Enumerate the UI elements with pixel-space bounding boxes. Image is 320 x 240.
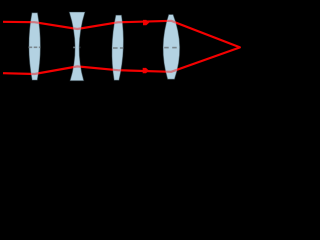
wire: top marginal ray: [3, 21, 240, 48]
lens fill overlays (make rays look pink inside glass): [29, 12, 180, 81]
dashed centre mark of lens L1: [29, 46, 41, 48]
arrowhead on top ray: [143, 20, 149, 25]
lens L1 (slender biconvex, group 1): [29, 13, 41, 80]
arrowhead on bottom ray: [143, 68, 149, 73]
lens L3 (slender biconvex, group 3): [112, 15, 124, 80]
lens L2 (biconcave / hourglass, variator group 2): [69, 12, 85, 81]
dashed centre mark of lens L3: [113, 47, 123, 49]
lens L4 (large biconvex, focusing group 4): [163, 15, 180, 80]
wire: bottom marginal ray: [3, 47, 240, 74]
dashed centre mark of lens L2: [73, 46, 80, 48]
dashed centre mark of lens L4: [164, 47, 177, 49]
node: focal point where rays converge: [239, 46, 241, 48]
